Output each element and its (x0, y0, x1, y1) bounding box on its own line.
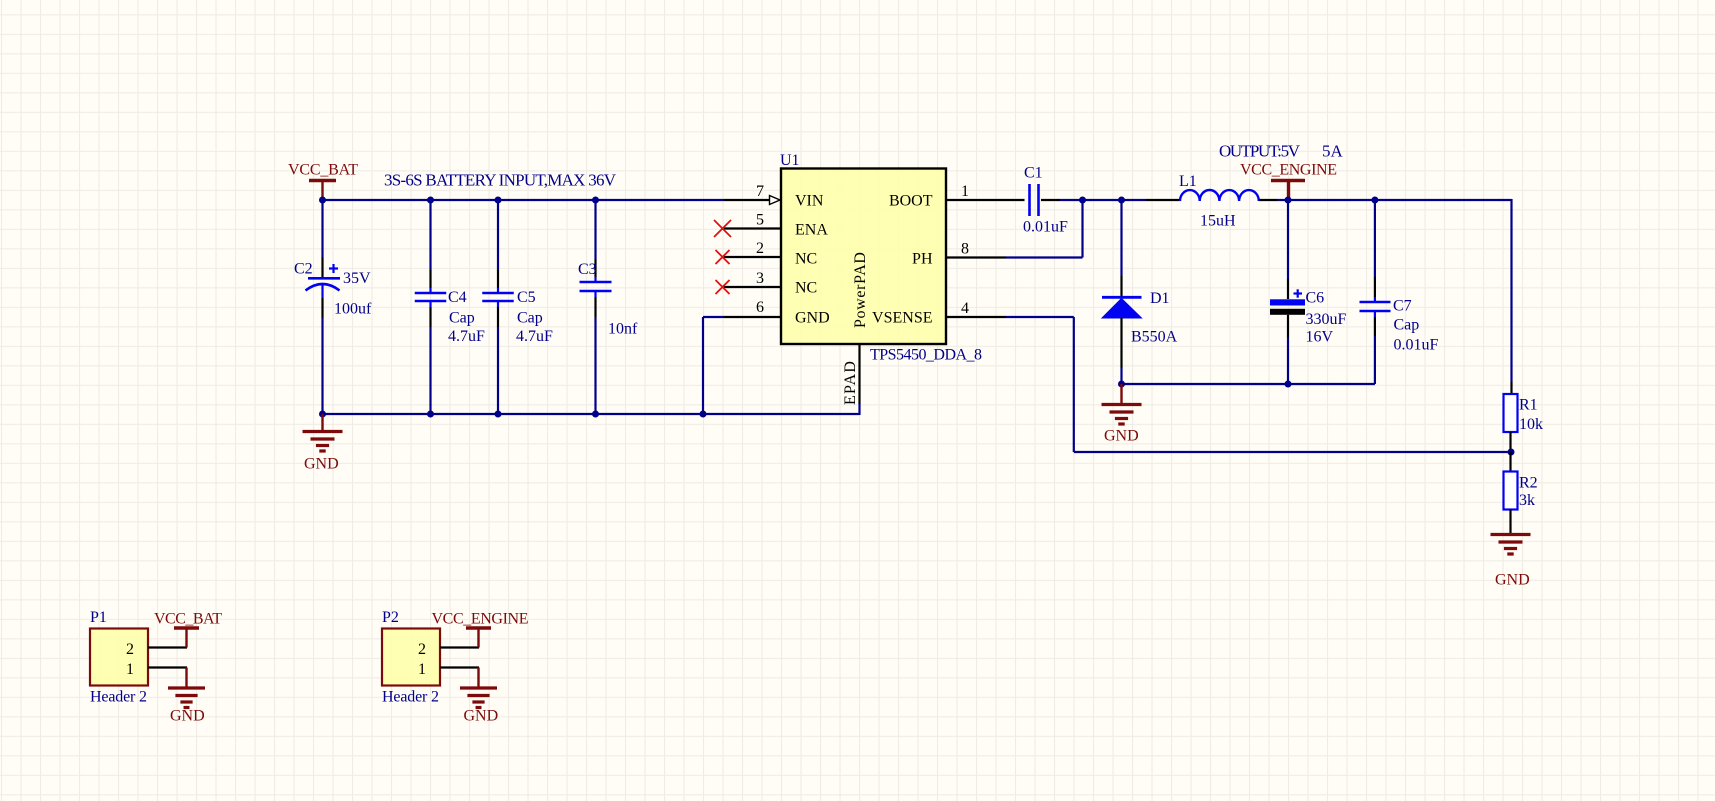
node junction C3/gnd bus (592, 411, 599, 418)
label C4 (448, 289, 467, 306)
svg-text:C6: C6 (1306, 290, 1325, 307)
inductor L1 (15uH) (1180, 190, 1277, 201)
svg-text:2: 2 (756, 240, 764, 257)
wire PH to BOOT node (1006, 199, 1083, 258)
pin name BOOT (889, 193, 933, 210)
power symbol VCC_ENGINE (P2) (432, 611, 529, 648)
svg-text:ENA: ENA (795, 222, 828, 239)
svg-text:GND: GND (464, 708, 499, 725)
label C2 (294, 261, 313, 278)
ground symbol (P1) (168, 668, 205, 708)
svg-text:10nf: 10nf (608, 321, 638, 338)
svg-text:Header 2: Header 2 (90, 689, 147, 706)
label 15uH (1200, 213, 1236, 230)
label C7 Cap (1394, 317, 1420, 334)
label GND (diode) (1104, 428, 1139, 445)
capacitor C1 (0.01uF bootstrap) (1030, 184, 1083, 216)
node junction BOOT/C1 (1079, 197, 1086, 204)
label C4 4.7uF (448, 328, 485, 345)
label P1 (90, 609, 107, 626)
svg-text:P1: P1 (90, 609, 107, 626)
svg-text:BOOT: BOOT (889, 193, 933, 210)
no-connect X pin 3 (716, 280, 730, 294)
label L1 (1179, 173, 1197, 190)
svg-text:0.01uF: 0.01uF (1394, 337, 1439, 354)
label 330uF (1306, 311, 1347, 328)
svg-text:2: 2 (418, 641, 426, 658)
pin EPAD (858, 344, 860, 415)
label B550A (1131, 329, 1178, 346)
label 0.01uF (C1) (1023, 219, 1068, 236)
svg-text:5: 5 (756, 212, 764, 229)
svg-text:U1: U1 (780, 152, 800, 169)
pin 6 GND wire route (703, 317, 781, 414)
label GND (P2) (464, 708, 499, 725)
no-connect X pin 2 (716, 250, 730, 264)
label 35V (343, 270, 371, 287)
pin 7 input arrow (770, 196, 781, 205)
pin number 7 (756, 183, 764, 200)
label 3k (1519, 492, 1535, 509)
capacitor C2 (polarized 100uf 35V) (306, 200, 341, 414)
node junction C6/output (1285, 197, 1292, 204)
node junction D1/switch node (1118, 197, 1125, 204)
svg-text:VCC_ENGINE: VCC_ENGINE (1240, 162, 1337, 179)
svg-text:TPS5450_DDA_8: TPS5450_DDA_8 (870, 347, 982, 364)
node junction pin6-wire/gnd bus (700, 411, 707, 418)
svg-text:GND: GND (1495, 572, 1530, 589)
pin name VIN (795, 193, 824, 210)
label R1 (1519, 397, 1538, 414)
label C7 (1393, 298, 1412, 315)
wire output node (1277, 199, 1512, 201)
svg-text:R2: R2 (1519, 475, 1538, 492)
svg-text:2: 2 (126, 641, 134, 658)
node junction C4/bus (427, 197, 434, 204)
svg-text:Cap: Cap (517, 310, 543, 327)
svg-text:C3: C3 (578, 261, 597, 278)
label C3 (578, 261, 597, 278)
svg-text:1: 1 (961, 183, 969, 200)
label C7 0.01uF (1394, 337, 1439, 354)
svg-text:VCC_BAT: VCC_BAT (288, 162, 358, 179)
pin number 5 (756, 212, 764, 229)
label Header 2 (P2) (382, 689, 439, 706)
svg-text:VSENSE: VSENSE (872, 310, 932, 327)
svg-text:16V: 16V (1306, 329, 1334, 346)
pin number 4 (961, 300, 969, 317)
resistor R1 (10k) (1504, 394, 1518, 452)
svg-text:C4: C4 (448, 289, 467, 306)
resistor R2 (3k) (1504, 452, 1518, 534)
pin 7 VIN wire+pin (724, 199, 770, 201)
svg-text:C7: C7 (1393, 298, 1412, 315)
ground symbol (divider) (1491, 535, 1531, 555)
svg-text:GND: GND (304, 456, 339, 473)
node junction C7/output (1371, 197, 1378, 204)
label 100uf (334, 301, 372, 318)
svg-text:5A: 5A (1322, 142, 1344, 161)
svg-text:1: 1 (126, 661, 134, 678)
node junction R1/R2 feedback (1508, 449, 1515, 456)
wire top input bus (322, 199, 725, 201)
pin name GND (795, 310, 830, 327)
label U1 designator (780, 152, 800, 169)
node junction VCC_BAT/bus (319, 197, 326, 204)
label PowerPAD (rotated) (852, 252, 869, 328)
label C1 (1024, 165, 1043, 182)
svg-text:D1: D1 (1150, 290, 1170, 307)
pin name NC (pin2) (795, 251, 817, 268)
svg-text:4: 4 (961, 300, 969, 317)
label Header 2 (P1) (90, 689, 147, 706)
pin 1 of P2 (418, 661, 479, 678)
pin 8 PH (946, 256, 1006, 258)
label C5 (517, 289, 536, 306)
label TPS5450_DDA_8 (870, 347, 982, 364)
label GND (input bus) (304, 456, 339, 473)
pin 1 of P1 (126, 661, 187, 678)
label EPAD (rotated) (842, 361, 859, 405)
op-amp U1 regulator TPS5450 body (781, 169, 946, 345)
net label 3S-6S BATTERY INPUT,MAX 36V (384, 171, 617, 190)
wire switch node to L1 (1083, 199, 1181, 201)
pin 1 BOOT (946, 199, 1025, 201)
node junction C4/gnd bus (427, 411, 434, 418)
svg-text:330uF: 330uF (1306, 311, 1347, 328)
svg-text:7: 7 (756, 183, 764, 200)
wire output to R1 (1510, 199, 1512, 394)
pin 2 of P2 (418, 641, 479, 658)
ground symbol (diode) (1102, 384, 1142, 424)
capacitor C6 (polarized 330uF 16V) (1270, 200, 1305, 384)
svg-text:3S-6S BATTERY INPUT,MAX 36V: 3S-6S BATTERY INPUT,MAX 36V (384, 171, 617, 190)
svg-text:NC: NC (795, 280, 817, 297)
label 5A (1322, 142, 1344, 161)
label 10nf (608, 321, 638, 338)
svg-text:6: 6 (756, 299, 764, 316)
svg-text:P2: P2 (382, 609, 399, 626)
svg-text:B550A: B550A (1131, 329, 1178, 346)
svg-text:R1: R1 (1519, 397, 1538, 414)
svg-text:GND: GND (170, 708, 205, 725)
node junction D1/gnd segment (1118, 381, 1125, 388)
svg-text:PH: PH (912, 251, 933, 268)
svg-text:Cap: Cap (1394, 317, 1420, 334)
label R2 (1519, 475, 1538, 492)
svg-text:3: 3 (756, 270, 764, 287)
pin 4 VSENSE (946, 316, 1006, 318)
diode D1 (B550A) (1102, 200, 1142, 384)
svg-text:NC: NC (795, 251, 817, 268)
wire VSENSE feedback route (1006, 317, 1511, 452)
label C5 Cap (517, 310, 543, 327)
svg-text:4.7uF: 4.7uF (516, 328, 553, 345)
no-connect X pin 5 (714, 220, 731, 237)
svg-text:C2: C2 (294, 261, 313, 278)
svg-text:PowerPAD: PowerPAD (852, 252, 869, 328)
label C5 4.7uF (516, 328, 553, 345)
wire output ground segment (1122, 383, 1375, 384)
connector P2 body (Header 2) (382, 629, 440, 686)
svg-text:0.01uF: 0.01uF (1023, 219, 1068, 236)
node junction C3/bus (592, 197, 599, 204)
svg-text:VIN: VIN (795, 193, 824, 210)
pin 5 ENA (724, 227, 781, 229)
pin 2 of P1 (126, 641, 187, 658)
pin number 6 (756, 299, 764, 316)
label 10k (1519, 416, 1543, 433)
svg-text:4.7uF: 4.7uF (448, 328, 485, 345)
svg-text:100uf: 100uf (334, 301, 372, 318)
power symbol VCC_BAT (288, 162, 358, 201)
label D1 (1150, 290, 1170, 307)
capacitor C7 (Cap 0.01uF) (1360, 200, 1391, 384)
label GND (divider) (1495, 572, 1530, 589)
node junction C5/gnd bus (495, 411, 502, 418)
svg-text:35V: 35V (343, 270, 371, 287)
svg-text:VCC_BAT: VCC_BAT (154, 611, 222, 628)
ground symbol (P2) (460, 668, 497, 708)
node junction C6/gnd segment (1285, 381, 1292, 388)
power symbol VCC_ENGINE (1240, 162, 1337, 201)
power symbol VCC_BAT (P1) (154, 611, 222, 648)
label GND (P1) (170, 708, 205, 725)
connector P1 body (Header 2) (90, 629, 148, 686)
wire ground bus (322, 413, 860, 415)
svg-text:1: 1 (418, 661, 426, 678)
pin 2 NC (724, 256, 781, 258)
label C4 Cap (449, 310, 475, 327)
svg-text:GND: GND (795, 310, 830, 327)
svg-text:L1: L1 (1179, 173, 1197, 190)
capacitor C5 (Cap 4.7uF) (482, 200, 514, 414)
pin name PH (912, 251, 933, 268)
capacitor C3 (10nf) (580, 200, 612, 414)
ground symbol (input bus) (303, 414, 343, 451)
svg-text:OUTPUT:5V: OUTPUT:5V (1219, 142, 1301, 161)
pin 3 NC (724, 286, 781, 288)
svg-text:8: 8 (961, 241, 969, 258)
pin number 3 (756, 270, 764, 287)
svg-text:3k: 3k (1519, 492, 1535, 509)
pin number 8 (961, 241, 969, 258)
svg-text:GND: GND (1104, 428, 1139, 445)
svg-text:15uH: 15uH (1200, 213, 1236, 230)
pin number 1 (961, 183, 969, 200)
pin name ENA (795, 222, 828, 239)
svg-text:VCC_ENGINE: VCC_ENGINE (432, 611, 529, 628)
svg-text:EPAD: EPAD (842, 361, 859, 405)
label P2 (382, 609, 399, 626)
pin name VSENSE (872, 310, 932, 327)
capacitor C4 (Cap 4.7uF) (415, 200, 447, 414)
svg-text:10k: 10k (1519, 416, 1543, 433)
label 16V (1306, 329, 1334, 346)
svg-text:C5: C5 (517, 289, 536, 306)
svg-text:Header 2: Header 2 (382, 689, 439, 706)
svg-text:Cap: Cap (449, 310, 475, 327)
label OUTPUT:5V (1219, 142, 1301, 161)
pin name NC (pin3) (795, 280, 817, 297)
node junction C2/gnd bus (319, 411, 326, 418)
svg-text:C1: C1 (1024, 165, 1043, 182)
node junction C5/bus (495, 197, 502, 204)
label C6 (1306, 290, 1325, 307)
pin number 2 (756, 240, 764, 257)
